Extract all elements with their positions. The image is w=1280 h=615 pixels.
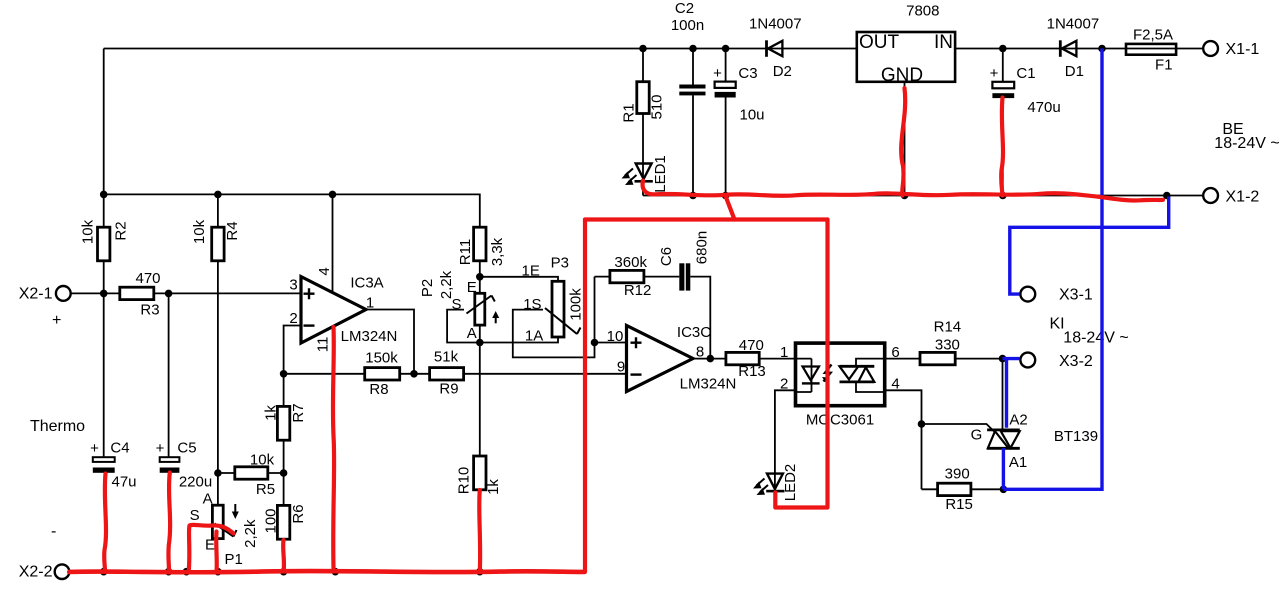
svg-text:R2: R2 (113, 221, 130, 240)
resistor R3 (120, 287, 154, 299)
terminal X1-2 (1203, 188, 1218, 203)
wire triac column (1002, 359, 1005, 490)
svg-text:4: 4 (316, 267, 333, 275)
capacitor C6 (679, 263, 684, 290)
red wire ground overdraw X2-2 rail (69, 571, 584, 572)
svg-text:IC3C: IC3C (677, 324, 711, 341)
capacitor C3 (715, 82, 736, 88)
wire C5 column (168, 293, 170, 457)
svg-text:R9: R9 (439, 381, 458, 398)
wire pin10 (595, 342, 627, 344)
svg-text:1E: 1E (522, 263, 540, 280)
svg-text:47u: 47u (111, 474, 136, 491)
svg-text:A: A (203, 490, 213, 507)
wire R11/P2/R10 column (479, 261, 481, 456)
wire 7808 GND pin (904, 82, 906, 196)
terminal X2-2 (55, 564, 70, 579)
svg-text:9: 9 (617, 359, 625, 376)
resistor R6 (277, 505, 289, 539)
svg-text:+: + (90, 440, 99, 457)
fuse F1 (1126, 44, 1176, 55)
wire X1-2 rail (643, 195, 1204, 197)
svg-text:-: - (51, 523, 56, 540)
wire 8V rail (104, 194, 480, 227)
svg-text:+: + (52, 312, 61, 329)
red wire P1 wiper squiggle (189, 525, 234, 572)
svg-text:C6: C6 (658, 247, 675, 266)
svg-text:100n: 100n (671, 17, 704, 34)
svg-text:1A: 1A (525, 328, 543, 345)
svg-text:E: E (205, 537, 215, 554)
wire C1 column (1002, 49, 1004, 196)
wire MOC pin6 R14 to X3-2 (885, 358, 1003, 360)
resistor R4 (212, 227, 224, 261)
junction node dots (100, 45, 1171, 576)
potentiometer P3 (552, 281, 564, 337)
svg-text:R5: R5 (256, 481, 275, 498)
svg-text:G: G (971, 427, 983, 444)
wire R5 line (218, 472, 284, 474)
resistor R10 (474, 456, 486, 490)
wire R4/P1 column (217, 194, 219, 505)
svg-text:390: 390 (945, 466, 970, 483)
wire pin10 up to feedback (594, 277, 596, 343)
trimmer P2 (475, 293, 485, 325)
capacitor C5 (160, 457, 180, 462)
svg-text:F1: F1 (1155, 57, 1173, 74)
resistor R11 (474, 227, 486, 261)
svg-text:S: S (451, 296, 461, 313)
svg-text:D1: D1 (1065, 63, 1084, 80)
svg-text:1k: 1k (485, 479, 502, 495)
resistor R14 (920, 352, 955, 364)
wire top +rail (104, 48, 1204, 50)
wire feedback R8 R9 to pin9 (284, 373, 627, 375)
resistor R8 (365, 368, 400, 380)
wire IC3A output (367, 310, 415, 374)
svg-text:3,3k: 3,3k (489, 237, 506, 266)
svg-text:470: 470 (135, 270, 160, 287)
wire R15 line (922, 488, 1004, 490)
svg-text:C1: C1 (1016, 65, 1035, 82)
svg-text:R4: R4 (224, 221, 241, 240)
resistor R2 (98, 227, 110, 261)
svg-text:1k: 1k (263, 405, 280, 421)
wire 1E (480, 277, 558, 282)
wire MOC pin4 down (885, 390, 922, 489)
svg-text:MOC3061: MOC3061 (806, 412, 874, 429)
svg-text:3: 3 (289, 277, 297, 294)
svg-text:IN: IN (934, 32, 953, 53)
svg-text:Thermo: Thermo (30, 418, 85, 435)
svg-text:P2: P2 (419, 279, 436, 297)
red wire 7808 GND riser (901, 88, 905, 196)
svg-text:2: 2 (289, 310, 297, 327)
svg-text:X3-2: X3-2 (1059, 353, 1093, 370)
svg-text:R13: R13 (738, 363, 766, 380)
svg-text:C2: C2 (675, 0, 694, 17)
wire IC3A pin2 (284, 326, 301, 374)
svg-text:R7: R7 (290, 403, 307, 422)
svg-text:2,2k: 2,2k (242, 519, 259, 548)
optocoupler MOC3061 (796, 343, 885, 406)
red wire loop rail tap (726, 196, 735, 220)
svg-text:4: 4 (891, 376, 899, 393)
resistor R7 (277, 406, 289, 440)
op-amp IC3A (301, 277, 366, 343)
svg-text:10: 10 (607, 328, 624, 345)
capacitor C1 (992, 82, 1014, 89)
svg-text:470u: 470u (1027, 99, 1060, 116)
resistor R13 (726, 352, 759, 364)
svg-text:330: 330 (935, 337, 960, 354)
LED1 (636, 164, 652, 180)
svg-text:LED2: LED2 (782, 464, 799, 502)
svg-text:A: A (467, 325, 477, 342)
blue wire X3-2 stub (1003, 357, 1020, 360)
svg-text:R15: R15 (945, 496, 973, 513)
svg-text:220u: 220u (179, 474, 212, 491)
resistor R5 (235, 467, 268, 479)
svg-text:X1-2: X1-2 (1226, 189, 1260, 206)
svg-text:R11: R11 (457, 239, 474, 265)
svg-text:R3: R3 (140, 302, 159, 319)
diode D2 (765, 40, 768, 57)
svg-text:+: + (713, 65, 722, 82)
op-amp IC3C (627, 326, 694, 392)
red wire R6 riser (281, 540, 286, 572)
svg-text:E: E (467, 279, 477, 296)
svg-text:X1-1: X1-1 (1226, 41, 1260, 58)
blue wire A2 (1005, 359, 1008, 428)
svg-text:51k: 51k (434, 349, 459, 366)
wire ground rail X2-2 (69, 571, 583, 573)
wire R7 column (283, 374, 285, 506)
svg-text:S: S (190, 507, 200, 524)
svg-text:LED1: LED1 (652, 155, 669, 193)
wire 1A (480, 337, 558, 343)
svg-text:R14: R14 (934, 319, 962, 336)
svg-text:10k: 10k (80, 219, 97, 244)
svg-text:IC3A: IC3A (350, 275, 383, 292)
trimmer P1 (212, 505, 223, 538)
wire R1 LED1 column (642, 49, 644, 196)
svg-text:C4: C4 (110, 440, 129, 457)
red wire C4 riser (104, 474, 106, 572)
triac BT139 (987, 428, 1020, 431)
diode D1 (1059, 40, 1062, 57)
svg-text:BT139: BT139 (1054, 428, 1098, 445)
wire IC3C output to MOC pin1 (693, 358, 796, 360)
wire MOC pin2 to LED2 (775, 390, 796, 489)
svg-text:1: 1 (366, 295, 374, 312)
red wire C5 riser (168, 473, 170, 572)
wire C2 column (692, 49, 694, 196)
svg-text:1S: 1S (523, 296, 541, 313)
resistor R12 (610, 270, 644, 282)
blue wire X1-1 to A1/R15 (1003, 49, 1102, 490)
red wire R10 riser (477, 490, 482, 572)
svg-text:10k: 10k (250, 452, 275, 469)
svg-text:18-24V ~: 18-24V ~ (1214, 135, 1279, 152)
svg-text:360k: 360k (614, 254, 647, 271)
svg-text:C3: C3 (738, 65, 757, 82)
svg-text:OUT: OUT (859, 32, 900, 53)
svg-text:100: 100 (263, 508, 280, 533)
wire R10 bottom to ground (479, 490, 481, 572)
svg-text:6: 6 (891, 344, 899, 361)
svg-text:X2-1: X2-1 (19, 286, 53, 303)
svg-text:11: 11 (315, 337, 332, 353)
red wire P1 E riser (214, 532, 219, 572)
svg-text:P1: P1 (225, 551, 243, 568)
svg-text:F2,5A: F2,5A (1133, 27, 1173, 44)
svg-text:7808: 7808 (906, 3, 939, 20)
svg-text:X3-1: X3-1 (1059, 287, 1093, 304)
svg-text:X2-2: X2-2 (19, 564, 53, 581)
resistor R1 (637, 82, 649, 114)
svg-text:680n: 680n (694, 231, 711, 264)
svg-text:470: 470 (739, 337, 764, 354)
wire IC3A pin4 (332, 194, 334, 293)
svg-text:10k: 10k (191, 219, 208, 244)
svg-text:C5: C5 (177, 440, 196, 457)
blue wire A1 (1002, 448, 1005, 489)
svg-text:A2: A2 (1009, 412, 1027, 429)
svg-text:510: 510 (649, 94, 666, 119)
svg-text:2,2k: 2,2k (438, 270, 455, 299)
svg-text:KI: KI (1049, 316, 1064, 333)
red wire C1 riser (1001, 98, 1003, 196)
terminal X2-1 (56, 286, 71, 301)
svg-text:A1: A1 (1009, 454, 1027, 471)
wire C3 column (725, 49, 727, 196)
terminal X3-1 (1020, 287, 1035, 302)
svg-text:10u: 10u (739, 107, 764, 124)
red wire left loop vertical (583, 220, 587, 572)
svg-text:1N4007: 1N4007 (749, 16, 802, 33)
wire left vertical X2-1 column (103, 49, 105, 458)
regulator 7808 (857, 32, 955, 82)
resistor R15 (938, 483, 971, 495)
terminal X3-2 (1020, 353, 1035, 368)
red wire LED2 to loop (775, 220, 827, 508)
svg-text:R12: R12 (624, 282, 652, 299)
red wire pin11 riser (333, 327, 334, 572)
wire X2-1 to pin3 (71, 292, 302, 294)
blue wire X1-2 to X3-1 (1010, 197, 1169, 295)
wire P2 S loop (447, 310, 480, 343)
svg-text:GND: GND (881, 65, 923, 86)
svg-text:R8: R8 (369, 381, 388, 398)
svg-text:R10: R10 (456, 467, 473, 495)
svg-text:18-24V ~: 18-24V ~ (1063, 330, 1128, 347)
wire R12 C6 feedback (595, 277, 711, 359)
svg-text:8: 8 (696, 344, 704, 361)
svg-text:100k: 100k (567, 288, 584, 321)
resistor R9 (430, 368, 464, 380)
wire P3 1S loop (513, 310, 595, 358)
LED2 (767, 474, 783, 489)
svg-text:150k: 150k (365, 350, 398, 367)
terminal X1-1 (1203, 41, 1218, 56)
svg-text:+: + (990, 65, 999, 82)
svg-text:P3: P3 (551, 255, 569, 272)
svg-text:2: 2 (780, 376, 788, 393)
svg-text:LM324N: LM324N (341, 328, 398, 345)
svg-text:+: + (156, 440, 165, 457)
red wire loop top (585, 217, 828, 221)
capacitor C2 (679, 85, 705, 89)
wire gate (922, 424, 995, 432)
svg-text:LM324N: LM324N (680, 376, 737, 393)
svg-text:1: 1 (780, 344, 788, 361)
svg-text:1N4007: 1N4007 (1047, 16, 1100, 33)
red wire LED1 to rail wiggle (643, 181, 1163, 201)
capacitor C4 (93, 457, 115, 462)
svg-text:R6: R6 (290, 504, 307, 523)
svg-text:R1: R1 (621, 103, 638, 122)
svg-text:D2: D2 (773, 63, 792, 80)
